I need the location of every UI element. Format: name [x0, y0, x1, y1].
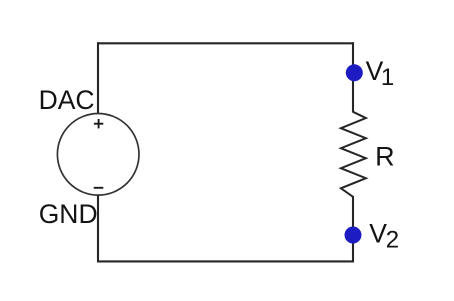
svg-text:1: 1	[381, 64, 394, 91]
wire left vertical lower (source - terminal to bottom corner)	[97, 195, 99, 262]
wire bottom horizontal	[97, 260, 354, 262]
svg-text:DAC: DAC	[39, 85, 95, 115]
voltage source U1 (DAC source circle)	[57, 114, 139, 196]
label GND	[39, 199, 98, 229]
label V2	[369, 219, 399, 254]
wire top horizontal	[97, 42, 354, 44]
wire right vertical upper (top corner through node V1 to resistor)	[352, 42, 354, 112]
plus polarity mark	[94, 119, 103, 128]
node V2 (junction dot)	[345, 227, 362, 244]
wire right vertical lower (resistor through node V2 to bottom corner)	[352, 196, 354, 262]
svg-text:V: V	[369, 219, 387, 249]
label DAC	[39, 85, 95, 115]
wire left vertical upper (top corner to source + terminal)	[97, 42, 99, 114]
svg-text:R: R	[375, 141, 395, 171]
svg-text:2: 2	[386, 227, 399, 254]
resistor R zigzag	[341, 112, 366, 197]
label R	[375, 141, 395, 171]
svg-text:GND: GND	[39, 199, 98, 229]
node V1 (junction dot)	[346, 64, 363, 81]
minus polarity mark	[94, 187, 104, 189]
label V1	[366, 56, 395, 91]
